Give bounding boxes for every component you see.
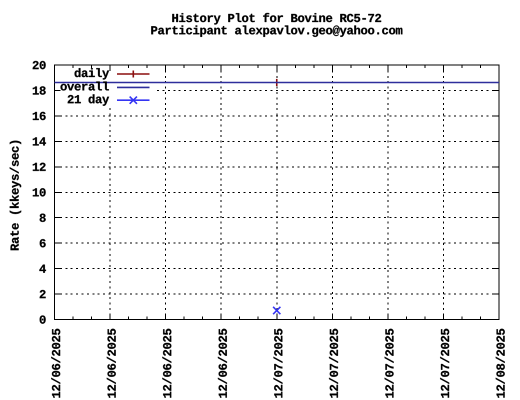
x tick label 12/08/2025 (tick 8) (496, 329, 505, 398)
y axis ticks left (55, 65, 61, 320)
legend sample line overall (navy) (117, 86, 150, 88)
y tick label 10 (33, 188, 46, 196)
y axis title Rate (kkeys/sec) (10, 141, 21, 250)
y tick label 18 (33, 86, 46, 94)
legend sample line daily (dark red with +) (117, 73, 150, 75)
legend sample line 21 day (blue with x) (117, 99, 150, 101)
y tick label 12 (33, 163, 46, 171)
legend label daily (75, 68, 110, 79)
y axis ticks right (mirrored) (493, 65, 499, 320)
y tick label 16 (33, 112, 46, 120)
legend label overall (61, 82, 109, 91)
x tick label 12/06/2025 (tick 3) (218, 329, 227, 398)
chart title (172, 13, 381, 25)
chart subtitle (151, 25, 402, 36)
y tick label 4 (39, 265, 46, 273)
y tick label 6 (40, 239, 46, 247)
x tick label 12/06/2025 (tick 2) (162, 329, 171, 398)
overall average line (rate 18.6) (55, 82, 500, 84)
y tick label 8 (40, 214, 46, 222)
21 day average data point marker x (12/07 00:00, 0.7) (273, 307, 280, 314)
x tick label 12/06/2025 (tick 1) (107, 329, 116, 398)
daily data point marker + (12/07 00:00, 18.6) (276, 79, 278, 86)
x axis ticks bottom (55, 314, 500, 320)
y tick label 2 (40, 290, 46, 298)
y tick label 20 (33, 61, 46, 69)
y tick label 0 (40, 315, 46, 323)
y tick label 14 (33, 137, 46, 145)
x tick label 12/07/2025 (tick 6) (385, 329, 394, 398)
x tick label 12/07/2025 (tick 5) (329, 329, 338, 398)
horizontal gridlines (rate 2..18) (55, 90, 500, 294)
legend opaque background box (55, 66, 155, 108)
x tick label 12/07/2025 (tick 7) (440, 329, 449, 398)
legend label 21 day (68, 94, 109, 105)
plot border frame (55, 65, 500, 320)
x axis ticks top (mirrored) (55, 65, 500, 71)
vertical gridlines (x major time ticks) (110, 65, 443, 320)
x tick label 12/06/2025 (tick 0) (51, 329, 60, 398)
x tick label 12/07/2025 (tick 4) (274, 329, 283, 398)
